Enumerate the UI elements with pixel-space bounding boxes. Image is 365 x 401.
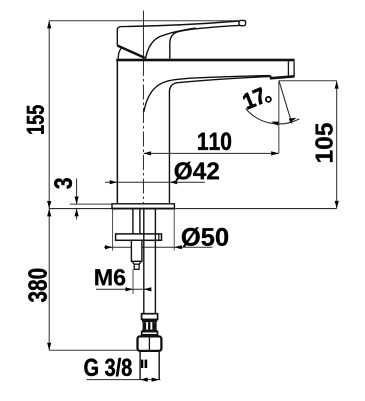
- dimension 105: [279, 81, 339, 209]
- dimension G 3/8 inch: [84, 358, 160, 382]
- handle left edge: [117, 27, 121, 46]
- body right edge with inner spout underside curve: [169, 76, 271, 203]
- faucet lever handle outline: [121, 21, 239, 27]
- M6 stud sleeve: [131, 240, 142, 261]
- handle base lip arc: [118, 48, 121, 59]
- supply pipe: [143, 209, 145, 314]
- base flange (escutcheon): [112, 204, 174, 209]
- body left edge: [116, 61, 118, 204]
- hex nut G3/8: [138, 336, 162, 351]
- hose upper ferrule: [142, 314, 158, 320]
- threaded stub G3/8: [139, 352, 141, 380]
- dimension 110: [144, 132, 279, 155]
- dimension 3 (flange thickness): [54, 178, 112, 219]
- M6 stud tip: [134, 264, 139, 269]
- dimension Ø42: [105, 162, 219, 185]
- hose braid top band: [142, 319, 157, 322]
- dimension 380: [28, 209, 137, 350]
- hose braid bottom band: [142, 330, 157, 332]
- pipe over washer: [143, 234, 145, 240]
- deck line (mounting surface reference): [49, 208, 337, 210]
- hose braid bars: [143, 322, 157, 329]
- aerator face (thick): [270, 76, 295, 78]
- dimension Ø50: [104, 210, 228, 251]
- lever bottom edge: [193, 25, 241, 29]
- centerline of faucet body (dash-dot): [142, 11, 144, 62]
- spout outer underside curve: [144, 76, 271, 112]
- spout end cap: [287, 61, 289, 77]
- M6 threaded stud rod: [132, 209, 134, 234]
- hex nut facet line: [148, 338, 150, 351]
- hose lower ferrule: [142, 332, 158, 335]
- handle neck outer curve: [146, 28, 196, 58]
- handle neck inner curve: [170, 29, 193, 58]
- body top rim (thick): [116, 59, 294, 62]
- dimension 17 degrees (spray angle): [242, 81, 299, 154]
- M6 stud chamfer: [132, 261, 134, 264]
- washer plate Ø50: [116, 234, 162, 240]
- handle base bottom edge: [117, 46, 145, 58]
- dimension M6: [95, 269, 151, 294]
- dimension 155: [27, 21, 51, 209]
- wire extension line top (155 upper reference, top of lever): [49, 20, 238, 22]
- lever tip cap: [239, 20, 246, 25]
